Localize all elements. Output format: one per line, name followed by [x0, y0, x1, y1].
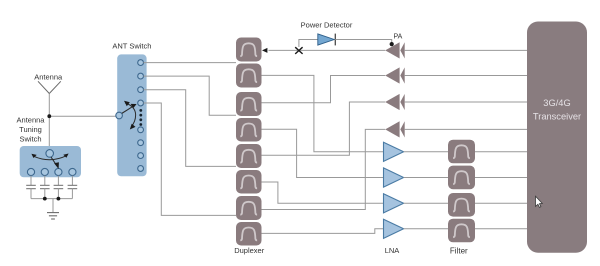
wire LNA3 to filter F3 — [404, 202, 448, 204]
low noise amplifier LNA4 — [384, 219, 404, 238]
wire ANT switch to duplexer 1 — [144, 62, 237, 64]
wire filter F3 to transceiver — [475, 202, 527, 204]
diode cathode bar — [334, 34, 336, 46]
tuning switch wiper arm — [51, 157, 59, 169]
duplexer D4 RX block — [236, 222, 262, 246]
wire bus to ground — [52, 199, 54, 213]
ANT switch U3 body — [117, 54, 146, 176]
wire duplexer D3 RX to LNA3 — [262, 182, 384, 203]
wire ANT switch to duplexer 3 — [144, 90, 237, 167]
antenna tuning switch label — [17, 115, 46, 143]
tuning switch contact circle 1 — [27, 168, 34, 175]
ANT switch rotation arc arrow — [124, 101, 136, 130]
wire LNA4 to filter F4 — [404, 228, 448, 230]
power amplifier PA4 — [385, 121, 405, 137]
duplexer D1 RX block — [236, 64, 262, 88]
svg-text:3G/4G: 3G/4G — [543, 98, 570, 108]
node antenna junction — [47, 114, 51, 118]
wire PA1 output to duplexer D1 — [269, 49, 386, 51]
wire filter F1 to transceiver — [475, 151, 527, 153]
transceiver U1 body — [527, 22, 587, 253]
ANT switch port circle 5 — [138, 127, 144, 133]
mouse cursor — [536, 196, 543, 207]
filter F1 — [448, 140, 475, 164]
wire coupler to power detector — [299, 40, 318, 48]
ANT switch port circle 1 — [138, 60, 144, 66]
svg-text:ANT Switch: ANT Switch — [112, 42, 151, 51]
ANT switch port circle 7 — [138, 153, 144, 159]
power amplifier PA2 — [385, 67, 405, 83]
svg-text:Power Detector: Power Detector — [301, 20, 353, 29]
svg-text:Filter: Filter — [450, 247, 468, 256]
tuning switch contact circle 4 — [69, 168, 76, 175]
wire PA2 input from transceiver — [405, 75, 527, 77]
svg-text:PA: PA — [393, 33, 402, 40]
node bus junction 2 — [57, 197, 61, 201]
filter F3 — [448, 193, 475, 217]
duplexer D3 TX block — [236, 144, 262, 168]
capacitor C4 — [68, 176, 78, 199]
low noise amplifier LNA2 — [384, 168, 404, 187]
ground — [47, 213, 59, 219]
duplexer D3 RX block — [236, 170, 262, 194]
duplexer D2 TX block — [236, 92, 262, 116]
svg-text:Antenna: Antenna — [34, 73, 63, 82]
power amplifier PA1 — [385, 42, 405, 58]
wire PA4 input from transceiver — [405, 128, 527, 130]
duplexer D1 TX block — [236, 38, 262, 62]
filter F4 — [448, 219, 475, 243]
coupler on PA1 line — [295, 47, 302, 54]
wire duplexer D3 TX to PA3 — [262, 102, 386, 155]
ANT switch port circle 4 — [138, 100, 144, 106]
ANT switch port circle 3 — [138, 87, 144, 93]
wire duplexer D4 RX to LNA4 — [262, 229, 384, 234]
antenna tuning switch U2 body — [20, 146, 81, 177]
arrowhead into duplexer D1 — [262, 48, 267, 53]
svg-text:Antenna: Antenna — [17, 115, 46, 124]
ANT switch ellipsis dots — [139, 109, 142, 126]
wire duplexer D2 TX to PA2 — [262, 76, 386, 103]
svg-text:Tuning: Tuning — [19, 125, 42, 134]
ANT switch port circle 2 — [138, 73, 144, 79]
wire LNA2 to filter F2 — [404, 177, 448, 179]
capacitor C3 — [54, 176, 64, 199]
low noise amplifier LNA1 — [384, 142, 404, 161]
wire filter F4 to transceiver — [475, 228, 527, 230]
node detector tap on PA1 — [390, 42, 394, 46]
node bus junction 1 — [43, 197, 47, 201]
wire LNA1 to filter F1 — [404, 151, 448, 153]
duplexer D4 TX block — [236, 196, 262, 220]
svg-text:Duplexer: Duplexer — [234, 246, 265, 255]
capacitor C2 — [40, 176, 50, 199]
ANT switch port circle 6 — [138, 140, 144, 146]
capacitor C1 — [26, 176, 36, 199]
filter F2 — [448, 166, 475, 190]
svg-text:Switch: Switch — [19, 134, 41, 143]
low noise amplifier LNA3 — [384, 194, 404, 213]
power amplifier PA3 — [385, 94, 405, 110]
transceiver label — [533, 98, 581, 122]
tuning switch common port circle — [46, 150, 54, 158]
wire capacitor bus — [31, 198, 72, 200]
wire ANT switch to duplexer 2 — [144, 76, 237, 115]
tuning switch rotation arc arrow — [31, 154, 68, 160]
ANT switch wiper arm — [122, 104, 137, 114]
ANT switch port circle 8 — [138, 166, 144, 172]
wire duplexer D2 RX to LNA2 — [262, 129, 384, 177]
wire ANT switch to duplexer 4 — [144, 103, 237, 215]
wire duplexer D4 TX to PA4 — [262, 129, 386, 209]
svg-text:Transceiver: Transceiver — [533, 112, 581, 122]
power detector diode D5 — [318, 34, 334, 45]
wire duplexer D1 RX to LNA1 — [262, 75, 384, 151]
ANT switch common pole circle — [116, 112, 123, 119]
wire power detector output — [335, 40, 391, 44]
wire antenna to ANT switch — [49, 115, 116, 117]
wire PA3 input from transceiver — [405, 101, 527, 103]
antenna ANT1 — [38, 81, 61, 93]
wire filter F2 to transceiver — [475, 177, 527, 179]
svg-text:LNA: LNA — [385, 246, 400, 255]
tuning switch contact circle 3 — [55, 168, 62, 175]
wire PA1 input from transceiver — [405, 49, 527, 51]
tuning switch contact circle 2 — [41, 168, 48, 175]
wire antenna feed — [48, 94, 50, 150]
duplexer D2 RX block — [236, 118, 262, 142]
